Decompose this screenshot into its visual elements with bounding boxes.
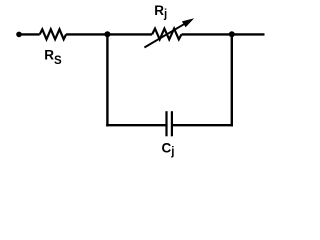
capacitor C_j left plate bbox=[165, 111, 167, 136]
input terminal dot bbox=[16, 32, 22, 38]
node A (left junction dot) bbox=[104, 31, 110, 37]
wire R_S to node A bbox=[66, 33, 107, 35]
wire left branch vertical bbox=[106, 34, 108, 126]
wire R_j to node B bbox=[182, 33, 232, 35]
wire right branch vertical bbox=[231, 34, 233, 126]
wire bottom left horizontal to C_j bbox=[106, 124, 166, 126]
variable resistor R_j arrowhead bbox=[182, 18, 194, 27]
wire node A to R_j bbox=[107, 33, 152, 35]
node B (right junction dot) bbox=[229, 31, 235, 37]
variable resistor R_j arrow shaft bbox=[144, 22, 187, 47]
wire bottom right horizontal from C_j bbox=[172, 124, 233, 126]
wire terminal to R_S bbox=[19, 33, 40, 35]
output wire node B to right end bbox=[232, 33, 265, 35]
variable resistor R_j zigzag bbox=[152, 29, 181, 40]
resistor R_S bbox=[40, 29, 66, 39]
capacitor C_j right plate bbox=[171, 111, 173, 136]
